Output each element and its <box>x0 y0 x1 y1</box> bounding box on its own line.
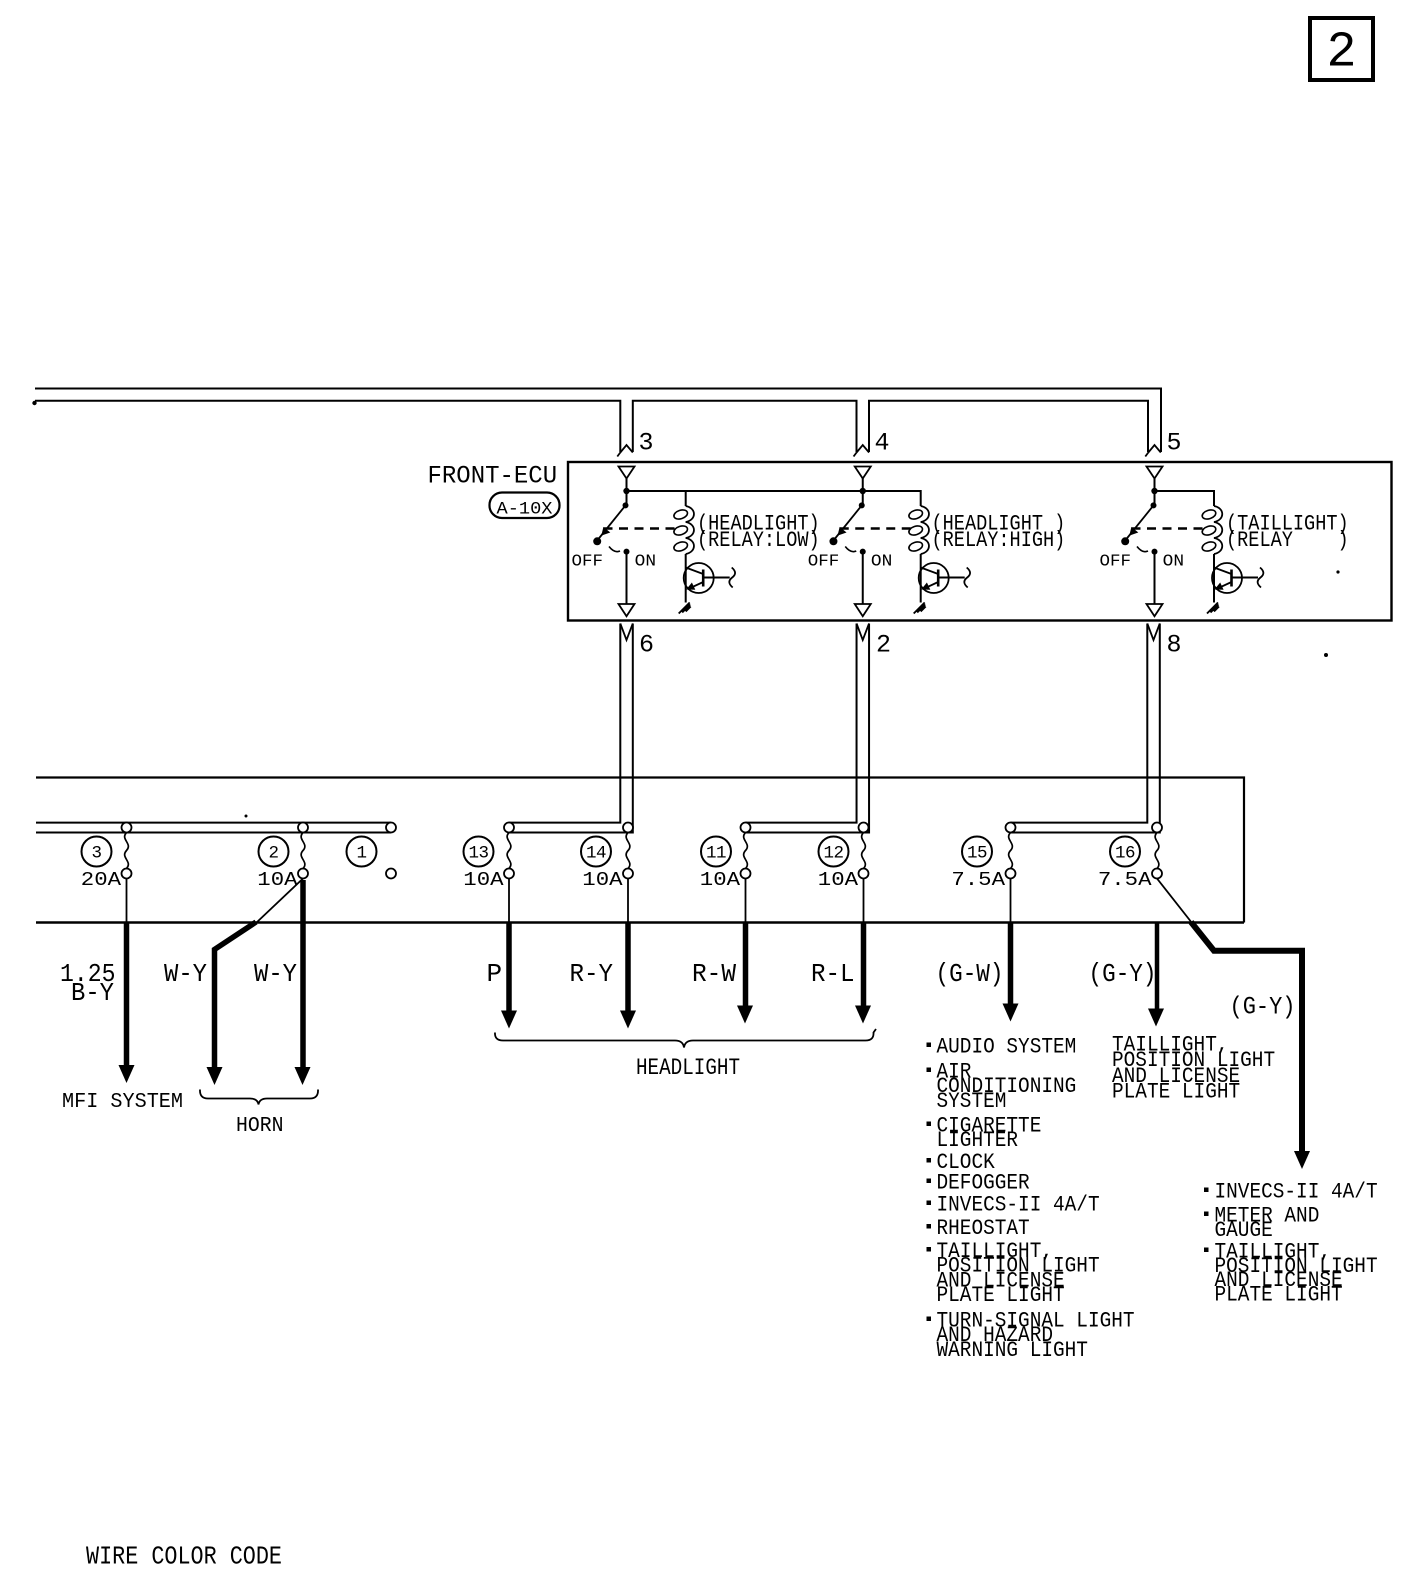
wire: relay 2 coil to ground rail <box>920 554 922 603</box>
net stub: Q2 collector continues (squiggle) <box>964 568 970 588</box>
wire: bus lower line pin3-to-pin4 segment into pin 4 left rail <box>633 401 857 452</box>
svg-text:INVECS-II 4A/T: INVECS-II 4A/T <box>937 1193 1100 1218</box>
transistor Q3 (relay driver) <box>1212 563 1242 593</box>
stray mark below ECU box <box>1324 653 1328 657</box>
svg-text:16: 16 <box>1115 844 1135 864</box>
wire: fuse 15 output inside block <box>1010 879 1012 923</box>
wire: transistor Q2 collector lead <box>938 577 965 579</box>
net stub: Q3 collector continues (squiggle) <box>1258 568 1264 588</box>
svg-text:4: 4 <box>875 429 890 458</box>
wire: fuse 11 output R-W to headlight <box>743 923 749 1007</box>
svg-text:3: 3 <box>639 429 654 458</box>
svg-text:(RELAY:LOW): (RELAY:LOW) <box>697 528 820 553</box>
wire: relay 1 coil tap <box>685 491 687 506</box>
node: relay 1 switch input <box>623 502 629 508</box>
svg-text:HEADLIGHT: HEADLIGHT <box>636 1055 740 1082</box>
svg-text:OFF: OFF <box>808 553 840 572</box>
stray mark inside ECU box <box>1336 570 1339 573</box>
svg-text:MFI SYSTEM: MFI SYSTEM <box>62 1090 183 1114</box>
svg-text:OFF: OFF <box>572 553 604 572</box>
wire: relay 2 pin to junction <box>862 479 864 506</box>
svg-text:6: 6 <box>639 631 654 660</box>
svg-text:P: P <box>487 959 503 989</box>
node: relay 1 feed junction <box>623 488 629 494</box>
svg-text:10A: 10A <box>582 869 623 891</box>
stray mark above fuse 1 <box>245 815 248 818</box>
fuse 2 (10A) <box>298 823 308 833</box>
svg-text:2: 2 <box>268 844 278 864</box>
fuse 3 (20A) <box>122 823 132 833</box>
svg-text:PLATE LIGHT: PLATE LIGHT <box>937 1283 1065 1308</box>
svg-text:15: 15 <box>967 844 987 864</box>
node: relay 3 wiper pivot <box>1121 537 1129 545</box>
svg-text:ON: ON <box>1163 553 1184 572</box>
wire: battery bus in junction block (fuses 3/2/1) lower line <box>36 832 391 834</box>
wire: fuse 13 output inside block <box>508 879 510 923</box>
connector pin 8 chevron (male) <box>1147 624 1160 641</box>
node: relay 3 switch input <box>1151 502 1157 508</box>
wire: fuse 13 output P to headlight <box>506 923 512 1012</box>
fuse 1 (spare) <box>386 823 396 833</box>
svg-text:B-Y: B-Y <box>71 978 114 1008</box>
wire: battery bus in junction block (fuses 3/2/1) upper line <box>36 822 391 824</box>
svg-text:AUDIO SYSTEM: AUDIO SYSTEM <box>937 1035 1077 1060</box>
wire: fuse 2 output branch (diagonal) W-Y to horn <box>256 879 303 924</box>
svg-text:2: 2 <box>876 631 891 660</box>
wire: fuse 12 output inside block <box>863 879 865 923</box>
svg-text:(G-Y): (G-Y) <box>1089 959 1157 989</box>
wire: fuse 15 output (G-W) to accessory systems <box>1008 923 1014 1005</box>
svg-text:FRONT-ECU: FRONT-ECU <box>428 461 558 490</box>
label list: bent (G-Y) destination systems <box>1204 1188 1209 1193</box>
label list: fuse 15 (G-W) destination systems <box>927 1043 932 1048</box>
relay 2 input terminal triangle (pin) <box>855 467 871 479</box>
svg-text:W-Y: W-Y <box>254 959 297 989</box>
node: bus left end tick <box>32 401 36 405</box>
wire: fuse 3 output 1.25 B-Y to MFI system <box>124 923 130 1067</box>
svg-text:PLATE LIGHT: PLATE LIGHT <box>1215 1283 1343 1308</box>
switch: relay 1 contact wiper (shown OFF) <box>598 505 626 539</box>
svg-text:(RELAY:HIGH): (RELAY:HIGH) <box>932 528 1066 553</box>
svg-text:ON: ON <box>635 553 656 572</box>
wire: harness pin 2 rails down to fuse bus <box>746 624 857 823</box>
connector pin 5 of FRONT-ECU (wire end chevron) <box>1145 445 1161 457</box>
fuse 13 (10A) <box>504 823 514 833</box>
svg-text:10A: 10A <box>463 869 504 891</box>
connector pin 2 chevron (male) <box>857 624 870 641</box>
brace: headlight group <box>495 1029 876 1048</box>
wire: bus lower line pin4-to-pin5 segment into pin 5 left rail <box>869 401 1148 452</box>
svg-text:W-Y: W-Y <box>164 959 207 989</box>
relay 2 output terminal triangle (pin) <box>855 604 871 616</box>
wire: internal feed relay 3 from pin 5 junction to coil <box>1155 491 1215 506</box>
fuse 11 (10A) <box>741 823 751 833</box>
svg-text:10A: 10A <box>818 869 859 891</box>
relay 3 output terminal triangle (pin) <box>1147 604 1163 616</box>
switch: relay 3 contact wiper (shown OFF) <box>1126 505 1154 539</box>
svg-text:R-Y: R-Y <box>570 959 614 989</box>
wire: fuse 3 output inside block <box>126 879 128 923</box>
wire: battery feed bus upper line into pin 5 right rail <box>35 389 1161 453</box>
svg-text:5: 5 <box>1167 429 1182 458</box>
svg-text:WARNING LIGHT: WARNING LIGHT <box>937 1338 1088 1363</box>
fuse 14 (10A) <box>623 823 633 833</box>
svg-text:10A: 10A <box>257 869 298 891</box>
relay 3 input terminal triangle (pin) <box>1147 467 1163 479</box>
switch: relay 3 throw arc <box>1137 547 1148 552</box>
ground: relay 2 coil driver ground <box>914 603 926 614</box>
relay 1 output terminal triangle (pin) <box>619 604 635 616</box>
svg-text:7.5A: 7.5A <box>951 869 1005 891</box>
svg-text:12: 12 <box>823 844 843 864</box>
svg-text:2: 2 <box>1326 25 1356 82</box>
node: relay 3 feed junction <box>1151 488 1157 494</box>
node: relay 2 ON contact <box>860 549 866 555</box>
wire: relay 2 ON contact to output pin <box>862 552 864 604</box>
ground: relay 1 coil driver ground <box>679 603 691 614</box>
svg-text:HORN: HORN <box>236 1115 284 1138</box>
svg-text:10A: 10A <box>700 869 741 891</box>
transistor Q2 (relay driver) <box>919 563 949 593</box>
svg-text:11: 11 <box>706 844 726 864</box>
link: relay 3 coil-to-contact actuation (dashed) <box>1132 527 1209 529</box>
wire: harness pin 8 rails down to fuse bus <box>1011 624 1148 823</box>
connector pin 3 of FRONT-ECU (wire end chevron) <box>617 445 633 457</box>
wire: fuse 12 output R-L to headlight <box>861 923 867 1007</box>
wire: battery feed bus lower line into pin 3 left rail <box>35 401 620 452</box>
svg-text:R-L: R-L <box>811 959 855 989</box>
wire: fuse 16 output (G-Y) to taillight circuit <box>1155 923 1160 1010</box>
wire: relay 3 ON contact to output pin <box>1154 552 1156 604</box>
svg-text:(G-W): (G-W) <box>936 959 1004 989</box>
svg-text:14: 14 <box>586 844 606 864</box>
wire: transistor Q1 collector lead <box>703 577 730 579</box>
node: relay 3 ON contact <box>1152 549 1158 555</box>
connector designator A-10X <box>490 493 560 519</box>
svg-text:R-W: R-W <box>692 959 736 989</box>
connector pin 6 chevron (male) <box>620 624 633 641</box>
wire: relay 3 pin to junction <box>1154 479 1156 506</box>
node: relay 1 ON contact <box>624 549 630 555</box>
node: relay 2 wiper pivot <box>829 537 837 545</box>
switch: relay 2 contact wiper (shown OFF) <box>834 505 862 539</box>
wire: relay 1 coil to ground rail <box>685 554 687 603</box>
svg-text:8: 8 <box>1167 631 1182 660</box>
link: relay 1 coil-to-contact actuation (dashed) <box>604 527 680 529</box>
wire: internal feed rail from pin 3 junction to relay 2 coil <box>627 491 921 506</box>
node: relay 2 feed junction <box>860 488 866 494</box>
svg-text:3: 3 <box>91 844 101 864</box>
link: relay 2 coil-to-contact actuation (dashed) <box>840 527 915 529</box>
relay coil L3 <box>1214 506 1222 554</box>
relay 1 input terminal triangle (pin) <box>619 467 635 479</box>
relay coil L2 <box>921 506 929 554</box>
switch: relay 1 throw arc <box>609 547 620 552</box>
svg-text:13: 13 <box>468 844 488 864</box>
switch: relay 2 throw arc <box>845 547 856 552</box>
svg-text:20A: 20A <box>81 869 122 891</box>
wire: fuse 14 output inside block <box>627 879 629 923</box>
fuse 15 (7.5A) <box>1006 823 1016 833</box>
wire: fuse 11 output inside block <box>745 879 747 923</box>
transistor Q1 (relay driver) <box>684 563 714 593</box>
wire: fuse 16 second output (G-Y) bent feed <box>1157 879 1192 924</box>
node: relay 1 wiper pivot <box>593 537 601 545</box>
wire: relay 1 pin to junction <box>626 479 628 506</box>
svg-text:1: 1 <box>356 844 366 864</box>
wire: fuse 14 output R-Y to headlight <box>625 923 631 1012</box>
svg-text:SYSTEM: SYSTEM <box>937 1089 1007 1114</box>
svg-text:ON: ON <box>871 553 892 572</box>
node: relay 2 switch input <box>859 502 865 508</box>
svg-text:RHEOSTAT: RHEOSTAT <box>937 1216 1030 1241</box>
svg-text:WIRE COLOR CODE: WIRE COLOR CODE <box>86 1543 282 1572</box>
fuse 12 (10A) <box>859 823 869 833</box>
connector pin 4 of FRONT-ECU (wire end chevron) <box>854 445 870 457</box>
svg-text:7.5A: 7.5A <box>1098 869 1152 891</box>
wire: relay 1 ON contact to output pin <box>626 552 628 604</box>
svg-text:(RELAY ): (RELAY ) <box>1226 528 1349 553</box>
wire: fuse 2 output straight W-Y to horn <box>300 880 306 1068</box>
svg-text:A-10X: A-10X <box>497 500 554 520</box>
wire: relay 3 coil to ground rail <box>1213 554 1215 603</box>
brace: horn group <box>200 1090 318 1105</box>
ECU block FRONT-ECU outline <box>568 462 1392 621</box>
ground: relay 3 coil driver ground <box>1207 603 1219 614</box>
svg-text:INVECS-II 4A/T: INVECS-II 4A/T <box>1215 1180 1378 1205</box>
svg-text:PLATE LIGHT: PLATE LIGHT <box>1112 1079 1240 1104</box>
junction block outline (bottom edge) <box>36 921 1244 924</box>
junction block outline (top and right edge) <box>36 778 1244 923</box>
svg-text:(G-Y): (G-Y) <box>1230 993 1296 1022</box>
wire: transistor Q3 collector lead <box>1232 577 1259 579</box>
wire: harness pin 6 rails down to fuse bus <box>509 624 621 823</box>
page number box 2 <box>1310 18 1373 80</box>
net stub: Q1 collector continues (squiggle) <box>729 568 735 588</box>
relay coil L1 <box>686 506 694 554</box>
svg-text:OFF: OFF <box>1100 553 1132 572</box>
fuse 16 (7.5A) <box>1152 823 1162 833</box>
